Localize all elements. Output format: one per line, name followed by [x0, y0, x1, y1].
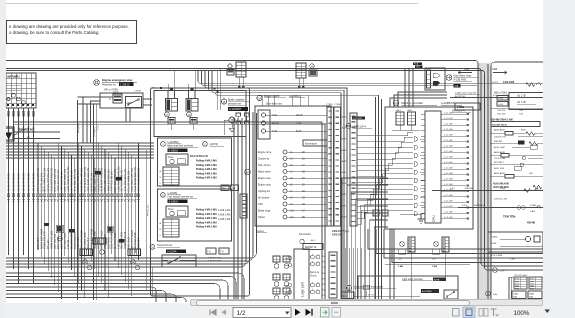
wire left bus band — [6, 142, 154, 144]
logic part box — [294, 249, 309, 302]
nav last page button — [306, 309, 312, 316]
svg-text:4-13 1AM: 4-13 1AM — [444, 172, 453, 175]
svg-text:L4: L4 — [290, 172, 293, 174]
svg-text:d/1 1.7B: d/1 1.7B — [517, 102, 526, 104]
svg-text:F: F — [110, 98, 112, 101]
connector below K2 — [190, 118, 197, 125]
wire top bus line 2 — [6, 68, 543, 266]
svg-text:(+1234A: (+1234A — [167, 250, 177, 253]
svg-text:Travel limit sw: Travel limit sw — [157, 244, 172, 247]
svg-text:TS2: TS2 — [322, 267, 327, 269]
single page icon — [453, 309, 460, 317]
svg-text:24B: 24B — [398, 259, 402, 261]
callout 15 dark label — [352, 117, 365, 120]
label FCA — [413, 63, 422, 66]
fuse caps F3 — [245, 113, 250, 116]
svg-text:C: C — [160, 183, 162, 185]
svg-text:CPU: CPU — [258, 203, 263, 206]
control sub box 19 — [158, 189, 232, 241]
svg-text:Check: Check — [310, 276, 317, 278]
relay K3 aux box — [309, 70, 317, 76]
relay switch sym 31 — [444, 290, 458, 299]
DM labels — [221, 185, 229, 191]
svg-text:05 2N R4B 2N: 05 2N R4B 2N — [32, 173, 36, 191]
connector grid CN9 — [163, 167, 179, 185]
svg-text:408-496: 408-496 — [494, 141, 503, 143]
fuse caps F2 — [236, 113, 241, 116]
svg-text:h13 7L: h13 7L — [368, 295, 375, 297]
svg-text:ACC: ACC — [311, 239, 316, 242]
power in terminal block TB1 — [3, 127, 14, 141]
svg-text:4-10 1AM: 4-10 1AM — [444, 111, 453, 114]
svg-text:4-12 1AM: 4-12 1AM — [444, 166, 453, 169]
monitor bottom verticals — [389, 229, 391, 302]
svg-text:1-A06 1-AM: 1-A06 1-AM — [218, 218, 230, 221]
connector strip channel — [240, 194, 247, 218]
svg-text:18: 18 — [302, 171, 305, 174]
svg-text:T-0: T-0 — [207, 251, 211, 254]
svg-text:Engine auto: Engine auto — [258, 184, 271, 187]
svg-text:Pulling 4-MA 1-MA: Pulling 4-MA 1-MA — [196, 172, 217, 175]
right bracket frame — [509, 93, 543, 110]
svg-text:Retention for: Retention for — [102, 84, 116, 87]
dark boxed label comb 1 — [95, 171, 101, 175]
svg-text:4-13 1AM: 4-13 1AM — [444, 128, 453, 131]
svg-text:Air cleaner: Air cleaner — [258, 197, 270, 200]
multi-pin connector comb A — [80, 249, 93, 256]
svg-text:408-49-(11): 408-49-(11) — [474, 205, 486, 207]
bottom cluster pair 1 — [400, 242, 405, 247]
svg-text:DM: DM — [222, 189, 226, 191]
svg-text:M: M — [246, 170, 248, 174]
hour meter circle — [446, 75, 452, 81]
svg-text:1/2: 1/2 — [237, 310, 246, 317]
svg-text:AUIU AUIU: AUIU AUIU — [494, 129, 505, 132]
svg-text:05 2N R4B 2N: 05 2N R4B 2N — [22, 173, 26, 191]
relay K3 wires — [298, 78, 300, 86]
svg-text:Pulling 4-MA 1-MA: Pulling 4-MA 1-MA — [196, 164, 217, 167]
page number input box — [233, 308, 291, 318]
svg-text:A23B: A23B — [434, 278, 440, 281]
CPU left pins — [421, 113, 425, 115]
bottom mid verticals — [344, 248, 346, 302]
svg-text:4-16 1AM: 4-16 1AM — [444, 144, 453, 147]
solenoid cluster 1 — [273, 256, 280, 262]
svg-text:M13: M13 — [343, 295, 348, 298]
callout 16 circle — [221, 99, 226, 104]
svg-text:4-12 1AM: 4-12 1AM — [444, 210, 453, 213]
wire fca verticals — [404, 68, 406, 107]
svg-text:L7 N: L7 N — [150, 88, 155, 90]
svg-text:AUIU 1-AM: AUIU 1-AM — [494, 146, 505, 149]
svg-text:FCA: FCA — [414, 63, 419, 66]
svg-text:Option: Option — [258, 216, 266, 219]
horizontal scrollbar track — [190, 299, 543, 306]
svg-text:4-1S1: 4-1S1 — [492, 82, 499, 84]
svg-text:DM: DM — [232, 189, 236, 191]
connector strip TS — [329, 252, 337, 298]
wire corner fan to right edge — [368, 229, 543, 249]
svg-text:(+123B/C5: (+123B/C5 — [441, 101, 455, 105]
relay sub box — [154, 91, 246, 137]
svg-text:L2: L2 — [290, 159, 293, 161]
svg-text:24B: 24B — [432, 259, 436, 261]
wire feeder lines — [13, 121, 322, 123]
svg-text:CAN CAN: CAN CAN — [332, 234, 343, 237]
svg-text:4-15 1AM: 4-15 1AM — [444, 139, 453, 142]
svg-text:4-11 1AM: 4-11 1AM — [444, 161, 453, 164]
svg-text:05 2N R4B 2N: 05 2N R4B 2N — [7, 173, 11, 191]
svg-text:22: 22 — [302, 197, 305, 200]
fit page icon selected — [463, 307, 475, 318]
svg-text:1-B06 meter relay 4B: 1-B06 meter relay 4B — [455, 92, 476, 95]
ground symbol GND1 — [420, 214, 422, 219]
prev view icon — [321, 308, 330, 318]
svg-text:Timer: Timer — [168, 156, 174, 159]
relay wires down — [170, 124, 172, 130]
svg-text:4-12 1AM: 4-12 1AM — [444, 122, 453, 125]
monitor left connector strip — [350, 113, 357, 226]
svg-text:d/1 1.7B: d/1 1.7B — [517, 96, 526, 98]
wires to switch S1 — [78, 96, 114, 98]
svg-text:12%: 12% — [500, 271, 504, 273]
svg-text:Brake nega: Brake nega — [258, 210, 271, 213]
9A04P box — [303, 244, 323, 250]
svg-text:1-AM: 1-AM — [530, 210, 535, 213]
svg-text:709-N 1-AM: 709-N 1-AM — [494, 157, 505, 160]
svg-text:(Engine): (Engine) — [76, 123, 80, 133]
relay wires up — [167, 84, 169, 90]
multi-pin connector comb C — [93, 238, 106, 244]
control sub box 9 — [158, 138, 232, 186]
svg-text:30: 30 — [395, 102, 398, 105]
svg-text:4-1%: 4-1% — [462, 205, 467, 207]
fuse panel box — [255, 106, 331, 226]
svg-text:LB 2N: LB 2N — [272, 122, 279, 125]
svg-text:1414-1508: 1414-1508 — [503, 81, 515, 84]
wire comb verticals with labels — [37, 143, 39, 250]
svg-text:1-A06 1-AM: 1-A06 1-AM — [218, 209, 230, 212]
callout 27 circle — [493, 268, 498, 273]
callout 17 circle — [165, 112, 170, 117]
svg-text:C: C — [160, 235, 162, 237]
svg-text:pressure sw: pressure sw — [228, 102, 241, 105]
svg-text:4-17 1AM: 4-17 1AM — [444, 150, 453, 153]
svg-text:L8: L8 — [290, 198, 293, 200]
svg-text:0.05M: 0.05M — [126, 103, 132, 105]
svg-text:Main shaft fuel overheat: Main shaft fuel overheat — [168, 145, 194, 148]
right box 232 — [488, 232, 543, 252]
callout 31 wires — [354, 296, 420, 298]
svg-text:1-4M: 1-4M — [500, 188, 505, 190]
svg-text:16: 16 — [302, 158, 305, 161]
svg-text:17: 17 — [302, 164, 305, 167]
circle M motor — [245, 169, 251, 175]
svg-text:DA-F-M DA-F-M: DA-F-M DA-F-M — [190, 155, 208, 158]
svg-text:L5: L5 — [290, 178, 293, 180]
svg-text:4-11 1AM: 4-11 1AM — [444, 117, 453, 120]
svg-text:Slow blow fuse: Slow blow fuse — [266, 103, 283, 106]
svg-text:3RK SUB LED 2N: 3RK SUB LED 2N — [137, 168, 141, 191]
svg-text:Fuel shutoff override sw: Fuel shutoff override sw — [168, 196, 194, 199]
svg-text:Hour meter relay: Hour meter relay — [454, 75, 473, 78]
svg-text:P.I.C: P.I.C — [95, 124, 99, 130]
svg-text:C4B: C4B — [492, 67, 497, 71]
svg-text:AUIU AUIU: AUIU AUIU — [494, 172, 505, 175]
svg-text:P 2N: P 2N — [272, 130, 278, 133]
monitor exit fan corners — [342, 178, 388, 302]
svg-text:B: B — [160, 177, 162, 179]
callout 24 circle — [257, 95, 262, 100]
svg-text:TS5: TS5 — [322, 284, 327, 286]
callout 31 circle — [346, 285, 351, 290]
svg-text:B: B — [160, 229, 162, 231]
wire right row 207 — [458, 207, 543, 209]
circle glyph A — [87, 265, 91, 269]
svg-text:L11: L11 — [290, 217, 294, 219]
callout 9 circle — [161, 142, 166, 147]
svg-text:1-AM6: 1-AM6 — [340, 149, 347, 152]
svg-text:Engine emergency stop: Engine emergency stop — [102, 78, 133, 82]
next view icon — [332, 308, 341, 318]
svg-text:4-11 1AM: 4-11 1AM — [444, 205, 453, 208]
text size icon — [491, 309, 497, 316]
svg-text:408-4M: 408-4M — [527, 222, 535, 225]
svg-text:+204: +204 — [498, 98, 504, 100]
svg-text:1-4M: 1-4M — [510, 259, 515, 261]
MA connector grid 1 — [396, 112, 404, 125]
svg-text:1-AM7: 1-AM7 — [340, 204, 347, 207]
svg-text:Pulling 4-MA 1-MA: Pulling 4-MA 1-MA — [196, 221, 217, 224]
svg-text:20: 20 — [302, 184, 305, 187]
connector grid CN19 — [163, 219, 179, 237]
fuse panel top pin rows — [266, 114, 327, 116]
svg-text:1-4M 1-4M: 1-4M 1-4M — [373, 219, 383, 221]
svg-text:1-B06: 1-B06 — [457, 105, 465, 109]
cluster K4 — [228, 64, 232, 68]
svg-text:15: 15 — [302, 151, 305, 154]
timer box 1 — [166, 154, 188, 165]
logic left pins — [288, 256, 292, 260]
svg-text:4-13 1AM: 4-13 1AM — [444, 216, 453, 219]
svg-text:1-AM0: 1-AM0 — [340, 215, 347, 218]
bus shading band — [479, 63, 492, 302]
svg-text:1-4M6: 1-4M6 — [491, 237, 498, 239]
logic right lamp pairs — [311, 255, 315, 259]
svg-text:200 F: 200 F — [113, 92, 119, 94]
fuse panel feed drops — [261, 96, 263, 107]
svg-text:4-10 1AM: 4-10 1AM — [444, 199, 453, 202]
callout 15 circle — [346, 124, 351, 129]
svg-text:23: 23 — [302, 203, 305, 206]
svg-text:19: 19 — [302, 177, 305, 180]
svg-text:1-AM0: 1-AM0 — [340, 116, 347, 119]
circle glyph C — [100, 250, 105, 255]
svg-text:Pulling 4-MA 1-MA: Pulling 4-MA 1-MA — [196, 168, 217, 171]
svg-text:(+12345): (+12345) — [168, 192, 178, 195]
svg-text:4-14 1AM: 4-14 1AM — [444, 133, 453, 136]
svg-text:M-XXL1N: M-XXL1N — [147, 205, 150, 216]
shield circle A — [83, 260, 88, 265]
svg-text:TEN TEN: TEN TEN — [503, 215, 515, 219]
svg-text:(+123B/C): (+123B/C) — [289, 95, 301, 98]
connector table CN1 — [1, 73, 36, 108]
zoom dropdown arrow over strip — [543, 308, 555, 316]
svg-text:Wiper wash: Wiper wash — [258, 171, 271, 174]
svg-text:+204: +204 — [498, 104, 504, 106]
relay K2 — [186, 99, 198, 112]
svg-text:(Auto computer instruction): (Auto computer instruction) — [354, 286, 383, 289]
CPU right pin rows — [441, 113, 466, 115]
relay K3 grid — [296, 63, 306, 78]
svg-text:CTRM: CTRM — [334, 104, 340, 106]
dark boxed label comb 5 — [44, 223, 49, 226]
travel switch wires — [196, 257, 232, 259]
svg-text:1-AM1: 1-AM1 — [340, 171, 347, 174]
svg-text:A-12B 3456: A-12B 3456 — [454, 79, 467, 82]
svg-text:LTA5: LTA5 — [513, 292, 519, 295]
callout 12 circle — [187, 112, 192, 117]
svg-text:1-4M: 1-4M — [398, 265, 403, 268]
svg-text:Timer: Timer — [168, 208, 174, 211]
fuse panel right connector strips — [327, 107, 334, 226]
callout 14 circle — [94, 80, 100, 86]
svg-text:L9: L9 — [290, 204, 293, 206]
top faint toolbar edge line — [6, 3, 418, 4]
horizontal scrollbar thumb — [196, 300, 470, 306]
svg-text:ACC: ACC — [272, 114, 277, 117]
connector cluster dark block — [57, 226, 63, 232]
wire left loop callout14 — [91, 101, 101, 143]
svg-text:Pulling 4-MA 1-MA: Pulling 4-MA 1-MA — [196, 217, 217, 220]
relay K1 terminals — [170, 88, 173, 91]
svg-text:4-14 1AM: 4-14 1AM — [444, 177, 453, 180]
connector cluster dark block 2 — [108, 227, 113, 232]
svg-text:4-10 1AM: 4-10 1AM — [444, 155, 453, 158]
svg-text:1-AM5: 1-AM5 — [340, 193, 347, 196]
svg-text:System: System — [256, 230, 264, 233]
T-0 labels — [206, 248, 216, 254]
bottom toolbar — [0, 306, 575, 318]
bottom cluster pair 2 — [434, 242, 439, 247]
svg-text:1-B: 1-B — [455, 85, 459, 88]
svg-text:303-496 709-N: 303-496 709-N — [492, 124, 507, 127]
right bottom bracket — [508, 277, 510, 302]
svg-text:Logic part: Logic part — [301, 282, 305, 297]
table pin marks — [7, 104, 9, 106]
svg-text:MA 2: MA 2 — [408, 109, 414, 112]
ground shield G1 — [58, 236, 63, 241]
wire engine branch labels — [77, 100, 79, 300]
logic gates column — [414, 137, 417, 141]
svg-text:05 2N R4B 2N: 05 2N R4B 2N — [27, 173, 31, 191]
circle glyph B — [135, 265, 139, 269]
svg-text:CPU: CPU — [432, 215, 436, 222]
svg-text:LTL/LTD 1ML1: LTL/LTD 1ML1 — [514, 275, 528, 277]
svg-text:05 2N R4B 2N: 05 2N R4B 2N — [17, 173, 21, 191]
svg-text:Brake negative: Brake negative — [228, 98, 245, 101]
timer box 2 — [166, 206, 188, 217]
svg-text:408-496 709: 408-496 709 — [494, 137, 507, 139]
svg-text:B 2N: B 2N — [296, 130, 302, 133]
wire monitor-left vertical band — [216, 93, 379, 302]
solenoid cluster 3 — [273, 288, 280, 294]
svg-text:2N: 2N — [27, 137, 30, 140]
svg-text:Pulling 4-MA 1-MA: Pulling 4-MA 1-MA — [196, 209, 217, 212]
svg-text:LAC: LAC — [529, 172, 534, 175]
right bottom connector grid 1 — [514, 277, 527, 289]
monitor controller box — [385, 107, 473, 229]
svg-text:Custom wi: Custom wi — [258, 158, 270, 161]
svg-text:MOTOR 1: MOTOR 1 — [494, 162, 505, 164]
dark boxed label comb 2 — [116, 177, 122, 181]
svg-text:(A4672): (A4672) — [210, 143, 219, 146]
svg-text:BRK ATP: BRK ATP — [137, 237, 141, 249]
svg-text:L7: L7 — [290, 191, 293, 193]
fuse symbol F1 — [229, 117, 235, 123]
svg-text:A-1234567: A-1234567 — [229, 108, 242, 111]
svg-text:Alarm de: Alarm de — [310, 271, 320, 274]
component pair below CPU — [373, 210, 379, 216]
nav next page button — [295, 309, 301, 316]
table cell circles — [2, 79, 5, 82]
svg-text:Illumination: Illumination — [299, 233, 312, 236]
callout 30 circle — [393, 100, 399, 106]
nav prev page button — [222, 310, 227, 316]
illumination box label — [303, 140, 327, 146]
relay K1 — [166, 99, 178, 112]
dark boxed label comb 4 — [119, 239, 125, 242]
svg-text:Light relay (remote): Light relay (remote) — [402, 278, 423, 281]
svg-text:1-AM2: 1-AM2 — [340, 127, 347, 130]
svg-text:369 or 709-0: 369 or 709-0 — [494, 92, 508, 95]
svg-text:1-4M: 1-4M — [491, 243, 496, 245]
svg-text:TS4: TS4 — [322, 278, 327, 280]
svg-text:21: 21 — [302, 190, 305, 193]
connector S1 — [113, 94, 122, 103]
svg-text:Lighting sw: Lighting sw — [258, 190, 270, 193]
CPU box U1 — [425, 111, 441, 223]
solenoid cluster 2 — [273, 274, 280, 280]
scrollbar grip dash — [331, 302, 338, 304]
right app background strip — [543, 0, 575, 318]
svg-text:A-12B02: A-12B02 — [169, 149, 179, 152]
svg-text:MA 1: MA 1 — [396, 109, 402, 112]
relay K2 terminals — [190, 88, 193, 91]
svg-text:A: A — [160, 222, 162, 225]
multi-pin connector comb B — [128, 249, 141, 256]
connector band symbols — [37, 194, 39, 197]
wire top bus line 3 — [6, 70, 543, 270]
svg-text:4-13 1-4M6: 4-13 1-4M6 — [491, 255, 503, 257]
illumination lamp — [300, 239, 304, 243]
callout 13 circle — [203, 142, 208, 147]
svg-text:L1: L1 — [290, 152, 293, 154]
MA wires — [399, 125, 401, 130]
svg-text:C4B: C4B — [464, 67, 469, 71]
hour meter relay box — [425, 68, 445, 90]
wire mid bus band — [198, 71, 543, 83]
svg-text:A-12B 345: A-12B 345 — [455, 95, 466, 98]
svg-text:C 85/N: C 85/N — [134, 91, 141, 93]
svg-text:Pulling 4-MA 1-MA: Pulling 4-MA 1-MA — [196, 160, 217, 163]
svg-text:AUIU 2004: AUIU 2004 — [494, 167, 505, 170]
wire hourmeter corner fan — [398, 92, 447, 107]
reference note box — [6, 20, 137, 44]
svg-text:TS6: TS6 — [322, 290, 327, 292]
staircase wiring harness — [357, 210, 413, 224]
LTA5 label boxes — [512, 291, 526, 299]
